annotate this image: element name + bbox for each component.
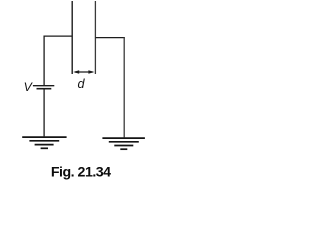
svg-text:Fig. 21.34: Fig. 21.34 [51, 164, 111, 180]
dimension arrow d between plates [73, 70, 94, 74]
wire left horizontal [44, 35, 73, 37]
wire left vertical down to battery [43, 36, 45, 86]
wire right vertical down to ground [123, 37, 125, 137]
battery long plate [33, 85, 54, 87]
ground right [102, 138, 144, 149]
wire battery to left ground [43, 89, 45, 137]
ground left [22, 137, 66, 148]
capacitor plate left [71, 1, 73, 74]
svg-text:d: d [78, 77, 86, 91]
battery short plate [37, 88, 52, 90]
capacitor plate right [94, 1, 96, 74]
wire right horizontal [95, 37, 124, 39]
